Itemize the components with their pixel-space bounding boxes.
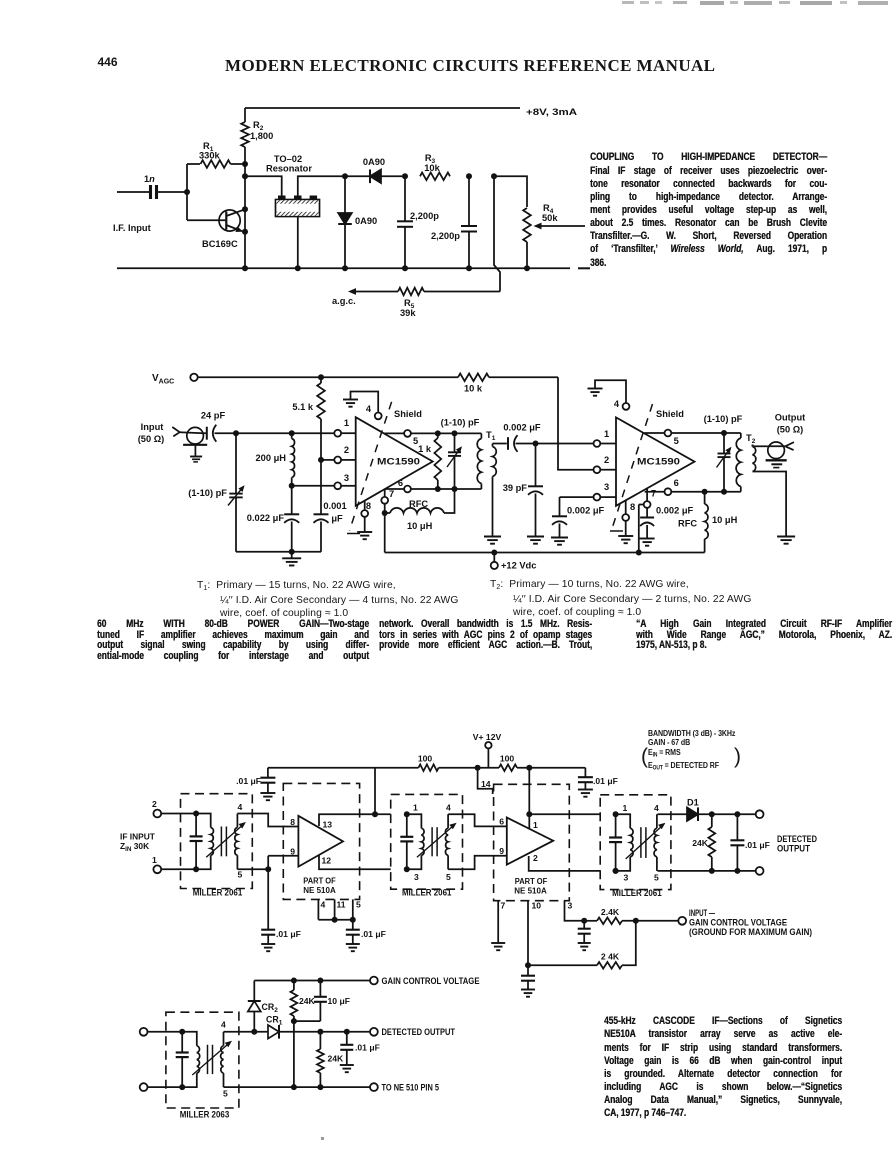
svg-text:5: 5 xyxy=(446,872,451,882)
svg-text:OUTPUT: OUTPUT xyxy=(777,844,811,854)
terminal IF input 1 xyxy=(153,865,161,873)
op-amp U2 MC1590 stage2 xyxy=(616,417,695,505)
resistor 2.4K lower xyxy=(528,964,597,966)
node rail to pin13 xyxy=(374,768,376,815)
svg-text:TO NE 510 PIN 5: TO NE 510 PIN 5 xyxy=(382,1083,440,1093)
node second rail tap xyxy=(242,173,248,179)
svg-text:NE 510A: NE 510A xyxy=(514,885,547,895)
svg-text:IF INPUT: IF INPUT xyxy=(120,832,156,842)
node R1-R2 junction xyxy=(242,161,248,167)
ground T1 secondary xyxy=(484,536,501,538)
node CR2 tap xyxy=(251,1029,257,1035)
svg-text:DETECTED: DETECTED xyxy=(777,834,817,844)
svg-text:1n: 1n xyxy=(144,174,155,184)
pin 2 stage2 xyxy=(594,466,601,473)
ground pin7 cap xyxy=(640,538,655,540)
node trimmer bottom stage1 xyxy=(452,486,458,492)
svg-text:Shield: Shield xyxy=(656,409,684,419)
svg-text:MILLER 2061: MILLER 2061 xyxy=(402,888,452,898)
svg-text:4: 4 xyxy=(446,803,451,813)
svg-text:MC1590: MC1590 xyxy=(377,457,420,468)
ground pin4 stage2 xyxy=(588,388,603,390)
svg-text:100: 100 xyxy=(500,754,515,764)
node input line taps xyxy=(233,430,239,436)
node pin10 bus xyxy=(525,962,531,968)
svg-text:BC169C: BC169C xyxy=(202,239,238,249)
node RFC top stage2 xyxy=(702,489,708,495)
wire pin 2 stub xyxy=(529,856,601,871)
ground pin3 cap xyxy=(551,537,568,539)
transformer Miller 2061 #3 primary xyxy=(616,814,631,828)
wire +8V top rail xyxy=(245,107,520,109)
capacitor 0.002 uF pin3 xyxy=(559,497,561,516)
inductor RFC stage2 xyxy=(704,492,706,504)
tuning arrow Miller 2061 #2 xyxy=(417,824,455,857)
svg-text:1 k: 1 k xyxy=(418,444,432,454)
svg-text:2: 2 xyxy=(344,445,349,455)
wire resonator to ground xyxy=(297,217,299,269)
node coil bottom xyxy=(289,483,295,489)
resistor R5 xyxy=(424,291,500,293)
transformer Miller 2061 #2 secondary xyxy=(447,814,449,828)
svg-text:5: 5 xyxy=(674,436,679,446)
svg-text:NE 510A: NE 510A xyxy=(303,885,336,895)
terminal detected output subckt xyxy=(370,1028,378,1036)
node Miller 2061 #3 cap top xyxy=(613,811,619,817)
wire input top xyxy=(161,813,196,815)
svg-text:1,800: 1,800 xyxy=(250,131,273,141)
wire ground rail bottom xyxy=(117,267,570,269)
shield dashed line stage1 xyxy=(350,402,392,531)
svg-text:0.022 μF: 0.022 μF xyxy=(247,513,285,523)
wire agc feed down xyxy=(494,176,500,291)
pin 3 stage1 xyxy=(334,482,341,489)
svg-text:330k: 330k xyxy=(199,151,221,161)
svg-text:24 pF: 24 pF xyxy=(201,411,226,421)
ground pin9 cap xyxy=(261,943,275,945)
svg-text:4: 4 xyxy=(221,1020,226,1030)
wire pin 12 output xyxy=(319,855,391,870)
svg-text:10k: 10k xyxy=(424,163,440,173)
pin 7 stage1 xyxy=(384,489,386,497)
transformer T2 primary xyxy=(740,433,742,438)
terminal gain control input xyxy=(678,917,686,925)
svg-text:(1-10) pF: (1-10) pF xyxy=(441,418,480,428)
node trimmer bottom stage2 xyxy=(721,489,727,495)
svg-text:a.g.c.: a.g.c. xyxy=(332,296,356,306)
resistor 2.4K upper xyxy=(584,920,597,922)
svg-text:8: 8 xyxy=(630,502,635,512)
wire tank left leg xyxy=(235,433,237,493)
node tank gnd xyxy=(289,549,295,555)
wire gain control line xyxy=(254,980,370,982)
node trimmer top stage1 xyxy=(452,430,458,436)
svg-text:6: 6 xyxy=(674,478,679,488)
wire V+ rail xyxy=(268,767,419,769)
transformer Miller 2061 #2 core xyxy=(431,827,433,856)
node Miller 2061 #2 cap bottom xyxy=(404,866,410,872)
svg-text:200 μH: 200 μH xyxy=(256,453,287,463)
capacitor .01uF det2 xyxy=(346,1032,348,1045)
tuning arrow Miller 2063 xyxy=(192,1042,230,1075)
svg-text:GAIN CONTROL VOLTAGE: GAIN CONTROL VOLTAGE xyxy=(689,918,787,928)
svg-text:TO–02: TO–02 xyxy=(274,154,302,164)
svg-text:4: 4 xyxy=(614,399,620,409)
wire AGC to pin2 stage2 xyxy=(558,377,593,469)
wire pin7 to +12 rail xyxy=(384,513,386,553)
svg-text:4: 4 xyxy=(321,900,326,910)
diode 0A90 shunt xyxy=(344,176,346,268)
svg-text:11: 11 xyxy=(337,900,346,910)
node gain control junction xyxy=(633,918,639,924)
diode CR2 xyxy=(253,1012,255,1032)
svg-text:0A90: 0A90 xyxy=(363,157,385,167)
svg-text:(50 Ω): (50 Ω) xyxy=(138,434,165,444)
wire 0.001 leg xyxy=(320,433,322,460)
box NE510A second xyxy=(494,784,570,900)
wire pin 14 lead xyxy=(478,768,493,794)
svg-text:+12 Vdc: +12 Vdc xyxy=(501,561,536,571)
wire pin1 line to miller3 xyxy=(529,813,600,815)
op-amp U1 MC1590 stage1 xyxy=(356,417,433,506)
capacitor .01uF rail right xyxy=(584,768,586,778)
svg-text:10 k: 10 k xyxy=(464,384,483,394)
capacitor tuning Miller 2061 #1 xyxy=(195,814,197,837)
svg-text:10: 10 xyxy=(532,901,542,911)
svg-text:5: 5 xyxy=(356,900,361,910)
svg-text:9: 9 xyxy=(499,846,504,856)
svg-text:50k: 50k xyxy=(542,213,558,223)
svg-text:100: 100 xyxy=(418,754,433,764)
svg-text:24K: 24K xyxy=(328,1054,345,1064)
ground input connector xyxy=(183,444,207,446)
svg-text:9: 9 xyxy=(290,847,295,857)
svg-text:3: 3 xyxy=(344,473,349,483)
pin 8 stage2 xyxy=(625,500,627,514)
pin 8 stage1 xyxy=(364,501,366,511)
svg-text:7: 7 xyxy=(389,489,394,499)
wire tank bottom xyxy=(236,551,321,553)
capacitor .01uF pin9 xyxy=(267,869,269,929)
wire det input bottom xyxy=(148,1086,183,1088)
svg-text:3: 3 xyxy=(568,901,573,911)
node emitter xyxy=(242,229,248,235)
svg-text:13: 13 xyxy=(323,820,333,830)
node 1k bottom xyxy=(435,486,441,492)
inductor RFC stage1 xyxy=(385,512,390,514)
terminal VAGC xyxy=(190,374,197,381)
node Miller 2061 #1 cap top xyxy=(193,811,199,817)
wire +12V rail xyxy=(385,552,705,554)
transformer T1 primary xyxy=(480,433,482,438)
pin 2 stage1 xyxy=(334,457,341,464)
resistor 100 first xyxy=(419,764,439,771)
svg-text:1: 1 xyxy=(152,855,157,865)
capacitor .01uF rail left xyxy=(267,768,269,778)
wire second rail to resonator xyxy=(245,176,282,195)
terminal IF input 2 xyxy=(153,810,161,818)
transformer Miller 2061 #3 secondary xyxy=(656,814,658,828)
svg-text:3: 3 xyxy=(414,872,419,882)
ground rail right cap xyxy=(578,789,593,791)
svg-text:1: 1 xyxy=(623,803,628,813)
svg-text:Input: Input xyxy=(141,422,164,432)
transformer Miller 2063 secondary xyxy=(223,1032,225,1046)
wire pin9 amp1 xyxy=(268,855,298,857)
svg-text:1: 1 xyxy=(604,429,609,439)
svg-text:I.F. Input: I.F. Input xyxy=(113,223,151,233)
svg-text:2,200p: 2,200p xyxy=(431,231,460,241)
capacitor .01uF pin3 bias xyxy=(583,921,585,929)
pin 4 stage2 xyxy=(623,403,630,410)
svg-text:3: 3 xyxy=(624,873,629,883)
transformer T1 secondary xyxy=(492,444,494,447)
inductor 200uH xyxy=(291,433,293,438)
capacitor 2200p second xyxy=(468,176,470,226)
svg-text:8: 8 xyxy=(290,817,295,827)
svg-text:MILLER 2061: MILLER 2061 xyxy=(612,888,662,898)
terminal det input bottom xyxy=(140,1083,148,1091)
resistor R4 pot xyxy=(523,208,531,242)
svg-text:INPUT —: INPUT — xyxy=(689,908,715,918)
svg-text:10 μH: 10 μH xyxy=(407,521,433,531)
svg-text:0.001: 0.001 xyxy=(323,501,346,511)
diode CR1 xyxy=(268,1025,279,1039)
wire sec1 to pin8 xyxy=(237,814,298,827)
wire pin5 stub amp1 xyxy=(352,899,354,919)
svg-text:3: 3 xyxy=(604,482,609,492)
capacitor .01uF pin10 xyxy=(527,965,529,975)
wire pin11 stub amp1 xyxy=(334,899,336,919)
wire det input top xyxy=(148,1031,183,1033)
ground output connector xyxy=(766,459,787,461)
terminal +12 Vdc xyxy=(493,553,495,562)
transistor Q1 BC169C xyxy=(219,210,240,231)
resistor 24K detector xyxy=(711,814,713,827)
capacitor tuning Miller 2063 xyxy=(179,1029,185,1035)
ground T2 secondary xyxy=(777,536,795,538)
wire rail to R4 xyxy=(494,176,527,207)
wire pin2 line xyxy=(321,459,334,461)
svg-text:5: 5 xyxy=(223,1089,228,1099)
resistor 24K agc xyxy=(293,981,295,991)
svg-text:.01 μF: .01 μF xyxy=(593,776,618,786)
svg-text:5: 5 xyxy=(654,873,659,883)
capacitor 0.022 uF xyxy=(291,486,293,515)
node 39pF tap xyxy=(533,441,539,447)
svg-text:24K: 24K xyxy=(299,996,316,1006)
resistor 5.1k xyxy=(320,377,322,383)
box NE510A first xyxy=(283,783,359,899)
wire pin3 line xyxy=(292,485,335,487)
svg-text:ZIN 30K: ZIN 30K xyxy=(120,841,149,853)
ground pin7 amp2 xyxy=(491,942,505,944)
node pin7 junction xyxy=(382,510,388,516)
resistor R1 xyxy=(187,163,200,165)
box MILLER 2061 #1 xyxy=(181,794,253,889)
wire T1 secondary to cap xyxy=(493,443,507,445)
svg-text:(1-10) pF: (1-10) pF xyxy=(704,414,743,424)
wire base-bias vertical xyxy=(186,164,188,220)
capacitor tuning Miller 2061 #2 xyxy=(406,814,408,837)
wire detector bottom xyxy=(657,870,756,872)
resistor 1k xyxy=(437,433,439,438)
capacitor .01uF pin5 xyxy=(352,920,354,930)
svg-text:(50 Ω): (50 Ω) xyxy=(777,425,804,435)
svg-text:1: 1 xyxy=(533,820,538,830)
ground rail left cap xyxy=(260,792,275,794)
ground pin5 cap xyxy=(346,943,360,945)
ground pin8 stage2 xyxy=(618,535,633,537)
wiper arrow R4 xyxy=(537,225,585,227)
trimmer capacitor (1-10)pF input xyxy=(229,493,242,495)
node 24K agc top xyxy=(291,978,297,984)
node cap2 top xyxy=(466,173,472,179)
pin 6 stage2 xyxy=(645,491,665,493)
svg-text:0.002 μF: 0.002 μF xyxy=(656,506,694,516)
node 5.1k tap xyxy=(318,374,324,380)
node 24K top xyxy=(709,811,715,817)
capacitor 1n input xyxy=(117,191,149,193)
node collector xyxy=(242,206,248,212)
wire T2 sec bottom to ground xyxy=(753,472,787,537)
pin 3 stage2 xyxy=(594,494,601,501)
wire AGC rail xyxy=(198,376,458,378)
svg-text:MC1590: MC1590 xyxy=(637,457,680,468)
ground .01 det2 xyxy=(340,1064,354,1066)
svg-text:2.4K: 2.4K xyxy=(601,907,620,917)
svg-text:12: 12 xyxy=(322,856,332,866)
ground 39pF xyxy=(527,536,544,538)
transformer Miller 2061 #2 primary xyxy=(407,814,422,828)
transformer T2 secondary xyxy=(752,445,754,447)
capacitor 2200p first xyxy=(404,176,406,221)
node +12 taps xyxy=(491,550,497,556)
wire sec2 to pin6 amp2 xyxy=(448,814,507,826)
svg-text:5: 5 xyxy=(238,870,243,880)
resistor 100 second xyxy=(499,764,517,771)
op-amp NE510A second triangle xyxy=(507,818,553,865)
node pin14 tap xyxy=(475,765,481,771)
svg-text:4: 4 xyxy=(366,404,372,414)
node pin2 tap xyxy=(318,457,324,463)
pin 1 stage1 xyxy=(334,430,341,437)
pin 7 stage2 xyxy=(646,488,648,501)
pin 6 stage1 xyxy=(385,488,405,490)
input connector xyxy=(172,427,179,432)
svg-text:+8V, 3mA: +8V, 3mA xyxy=(526,107,577,118)
node Miller 2061 #3 cap bottom xyxy=(613,868,619,874)
op-amp NE510A first triangle xyxy=(298,816,343,867)
terminal gain control voltage xyxy=(370,977,378,985)
svg-text:7: 7 xyxy=(651,489,656,499)
svg-text:DETECTED OUTPUT: DETECTED OUTPUT xyxy=(382,1027,456,1037)
transformer Miller 2061 #1 primary xyxy=(196,814,211,828)
svg-text:0.002 μF: 0.002 μF xyxy=(567,506,605,516)
box MILLER 2063 xyxy=(166,1012,239,1108)
svg-text:.01 μF: .01 μF xyxy=(745,840,770,850)
svg-text:VAGC: VAGC xyxy=(152,373,174,386)
capacitor 0.002 uF pin7 xyxy=(640,517,654,519)
svg-text:(1-10) pF: (1-10) pF xyxy=(188,488,227,498)
node .01 det top xyxy=(344,1029,350,1035)
svg-text:RFC: RFC xyxy=(678,519,697,529)
shield dashed line stage2 xyxy=(613,404,653,527)
svg-text:.01 μF: .01 μF xyxy=(236,776,261,786)
wire pin4 stub amp1 xyxy=(317,899,319,919)
svg-text:39 pF: 39 pF xyxy=(503,483,528,493)
capacitor 24 pF xyxy=(203,432,206,434)
wire pins 4-11-5 bus xyxy=(318,919,352,921)
wire 24K-10uF bus xyxy=(294,1020,321,1022)
wire pin7 stub amp2 xyxy=(497,901,499,943)
node diode rail left xyxy=(342,173,348,179)
terminal to NE510 pin5 xyxy=(370,1083,378,1091)
trimmer capacitor (1-10)pF stage2 xyxy=(723,433,725,453)
capacitor 10uF xyxy=(319,981,321,997)
pin 4 stage1 xyxy=(375,413,382,420)
svg-text:V+ 12V: V+ 12V xyxy=(473,732,502,742)
svg-text:7: 7 xyxy=(501,901,506,911)
wire bottom to pin9 junction xyxy=(265,866,271,872)
tuning arrow Miller 2061 #1 xyxy=(206,824,244,858)
node 24K det top xyxy=(317,1029,323,1035)
wire resonator pin2 to diode rail xyxy=(298,176,345,195)
wire T2 sec to output xyxy=(752,445,754,447)
pin 5 stage1 xyxy=(384,432,404,434)
svg-text:6: 6 xyxy=(499,817,504,827)
svg-text:GAIN CONTROL VOLTAGE: GAIN CONTROL VOLTAGE xyxy=(382,976,480,986)
ground pin10 cap xyxy=(521,989,535,991)
capacitor .01uF detector xyxy=(736,814,738,840)
wire pin3 stub amp2 xyxy=(565,901,585,921)
transformer Miller 2061 #1 secondary xyxy=(236,814,238,828)
svg-text:D1: D1 xyxy=(687,798,699,808)
capacitor 0.001 uF xyxy=(314,513,329,515)
resistor 10k AGC xyxy=(458,374,489,382)
svg-text:6: 6 xyxy=(398,478,403,488)
svg-text:8: 8 xyxy=(366,501,371,511)
node Miller 2061 #1 cap bottom xyxy=(193,866,199,872)
svg-text:39k: 39k xyxy=(400,308,416,318)
svg-text:2,200p: 2,200p xyxy=(410,211,439,221)
svg-text:MILLER 2061: MILLER 2061 xyxy=(193,888,243,898)
svg-text:10 μH: 10 μH xyxy=(712,515,738,525)
node gnd junctions xyxy=(242,265,248,271)
capacitor tuning Miller 2061 #3 xyxy=(615,814,617,837)
tuning arrow Miller 2061 #3 xyxy=(626,824,664,859)
wire pin 1 drop xyxy=(528,768,530,815)
svg-text:CR2: CR2 xyxy=(262,1002,279,1014)
svg-text:Shield: Shield xyxy=(394,409,422,419)
terminal V+ 12V xyxy=(485,742,491,748)
trimmer capacitor (1-10)pF stage1 xyxy=(454,433,456,451)
wire pin10 stub amp2 xyxy=(527,901,529,966)
svg-text:4: 4 xyxy=(654,803,659,813)
svg-text:μF: μF xyxy=(331,514,343,524)
node output cap top xyxy=(734,811,740,817)
node pin1 drop tap xyxy=(526,765,532,771)
output connector xyxy=(768,442,785,459)
transformer Miller 2061 #3 core xyxy=(640,827,642,858)
svg-text:2: 2 xyxy=(533,853,538,863)
node 10uF top xyxy=(317,978,323,984)
terminal detected output top xyxy=(756,810,764,818)
wire det line xyxy=(224,1031,269,1033)
svg-text:0A90: 0A90 xyxy=(355,216,377,226)
node 1k top xyxy=(435,430,441,436)
node Miller 2061 #2 cap top xyxy=(404,811,410,817)
